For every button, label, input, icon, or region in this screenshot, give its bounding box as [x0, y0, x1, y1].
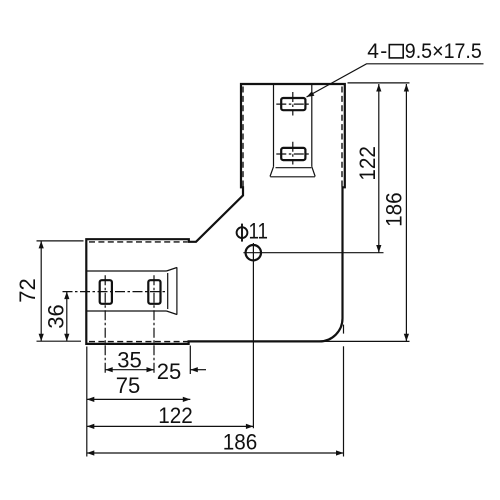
- svg-text:35: 35: [117, 348, 141, 373]
- dim 35 bottom: [105, 369, 154, 371]
- bracket outline: [86, 84, 345, 344]
- fold lines vertical arm: [86, 84, 315, 315]
- dim 186 right: [405, 84, 407, 341]
- hidden flange edge dashed, horizontal arm bottom: [89, 341, 188, 343]
- svg-text:186: 186: [382, 192, 407, 227]
- dim 36 left: [66, 292, 68, 342]
- leader arrowhead: [307, 91, 315, 97]
- label phi11: [237, 218, 268, 243]
- svg-text:25: 25: [157, 359, 181, 384]
- groove end (neck) horizontal arm: [167, 273, 169, 309]
- slot A vertical arm top: [100, 98, 306, 304]
- dim 186 bottom: [87, 452, 344, 454]
- dim 122 right: [378, 84, 380, 253]
- dim 122 bottom: [87, 425, 254, 427]
- slot B vertical arm bottom: [281, 148, 305, 160]
- label 4-square 9.5x17.5: [367, 40, 482, 63]
- svg-text:122: 122: [158, 403, 193, 428]
- svg-text:122: 122: [355, 146, 380, 181]
- svg-text:75: 75: [116, 373, 140, 398]
- extension lines: [37, 83, 410, 457]
- hidden flange edge dashed, horizontal arm top: [89, 241, 188, 243]
- fold lines horizontal arm: [86, 270, 166, 272]
- svg-text:11: 11: [249, 218, 269, 243]
- dimension lines: [41, 84, 406, 453]
- groove end (neck) vertical arm: [276, 167, 312, 169]
- svg-text:36: 36: [44, 304, 69, 328]
- svg-text:186: 186: [223, 430, 258, 455]
- dim 25 bottom arrow tail: [190, 369, 206, 371]
- dim 75 bottom: [87, 398, 191, 400]
- svg-text:4-: 4-: [367, 40, 387, 63]
- hidden flange edge dashed, vertical arm left: [89, 87, 342, 342]
- leader for slot label: [307, 64, 484, 97]
- slot 1 horizontal arm left: [100, 280, 112, 304]
- hidden flange edge dashed, vertical arm right: [341, 87, 343, 187]
- hole phi11: [243, 243, 383, 428]
- dim 72 left: [40, 241, 42, 341]
- slot 2 horizontal arm right: [148, 280, 160, 304]
- arrowheads: [39, 84, 409, 456]
- svg-text:9.5×17.5: 9.5×17.5: [405, 40, 482, 63]
- svg-text:72: 72: [15, 278, 40, 302]
- slot centerlines: [63, 92, 311, 374]
